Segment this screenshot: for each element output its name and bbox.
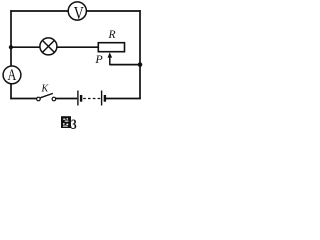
wire: bottom-left horizontal to switch: [10, 98, 36, 100]
wire: lamp to rheostat left terminal: [57, 46, 98, 48]
battery cell 1 long plate: [77, 91, 79, 106]
battery cell 2 short thick plate: [104, 95, 106, 102]
wire: right vertical (top corner down to bottom corner): [139, 10, 141, 99]
wire: slider horizontal lead to right vertical: [110, 64, 140, 66]
voltmeter V1 circle: [68, 2, 86, 20]
wire: junction to lamp: [11, 46, 40, 48]
battery cell 1 short thick plate: [80, 95, 82, 102]
svg-text:K: K: [41, 84, 50, 95]
svg-text:R: R: [107, 29, 115, 41]
rheostat R slider stem: [109, 56, 111, 65]
wire: battery to bottom-right corner: [106, 98, 141, 100]
figure label 图 (drawn glyph): [61, 116, 71, 128]
battery dashed link: [83, 98, 100, 100]
rheostat R slider arrowhead P: [108, 52, 113, 57]
wire: ammeter bottom to bottom-left corner: [10, 84, 12, 100]
lamp L1 circle: [40, 38, 57, 55]
ammeter A1 circle: [3, 66, 21, 84]
battery cell 2 long plate: [101, 91, 103, 106]
switch K lever: [40, 93, 53, 97]
svg-text:P: P: [94, 52, 103, 66]
wire: junction down to ammeter top: [10, 47, 12, 66]
wire: switch to battery: [56, 98, 77, 100]
node: junction dot on right vertical (slider tap): [138, 62, 143, 67]
lamp L1 cross stroke 2: [42, 40, 54, 52]
resistor R body (rheostat box): [98, 43, 124, 52]
svg-text:A: A: [8, 67, 17, 84]
wire: top-left horizontal (V meter left lead): [10, 10, 68, 12]
svg-text:V: V: [74, 3, 84, 23]
switch K terminal circle right: [52, 97, 56, 101]
switch K terminal circle left: [37, 97, 41, 101]
node: junction dot on left vertical (lamp branch): [9, 45, 13, 49]
wire: top-right horizontal (V meter right lead): [86, 10, 141, 12]
wire: left vertical (top corner down to lamp-branch junction): [10, 10, 12, 47]
lamp L1 cross stroke 1: [42, 40, 54, 52]
svg-text:3: 3: [71, 117, 77, 133]
